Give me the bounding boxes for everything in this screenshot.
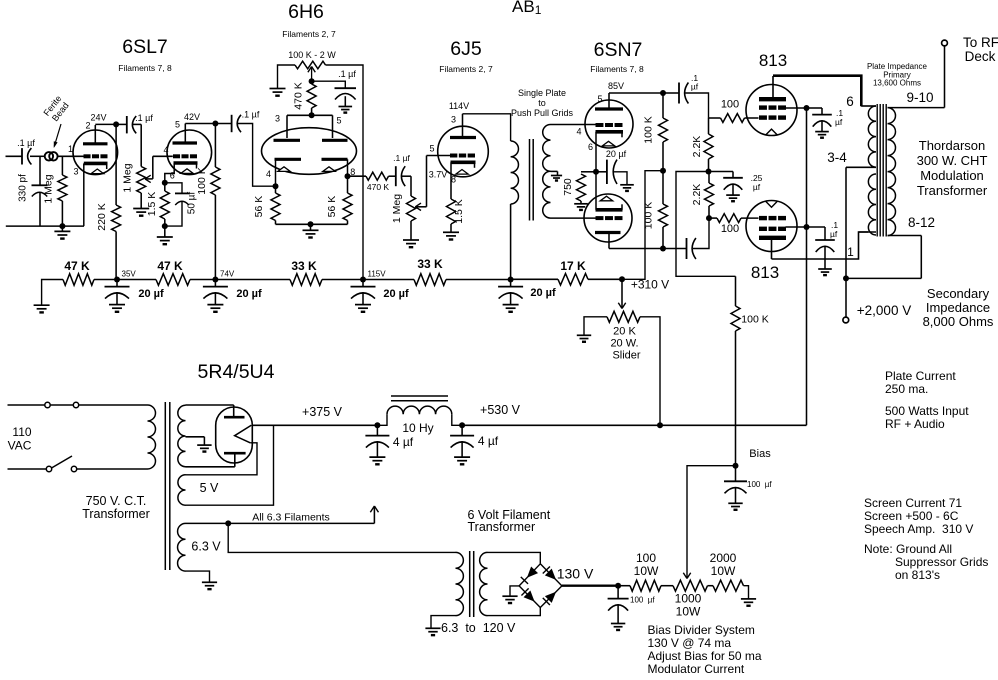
svg-text:47 K: 47 K <box>157 259 183 273</box>
wire upper 813 plate line <box>773 76 861 106</box>
wire screen rail vertical <box>806 108 808 425</box>
capacitor 100 uf bias filter <box>724 466 772 510</box>
svg-text:470 K: 470 K <box>293 82 305 109</box>
capacitor .1 uf coupling stage1-2 <box>127 113 154 133</box>
svg-text:10W: 10W <box>676 605 701 619</box>
transformer filament core <box>470 551 474 617</box>
capacitor .1 uf 6H6 bypass <box>312 69 357 113</box>
resistor 47 K second <box>117 259 215 285</box>
diode bridge bottom-right <box>543 592 556 605</box>
svg-text:220 K: 220 K <box>96 203 108 230</box>
wire plate to 24V node <box>90 113 116 125</box>
wire wiper to 6J5 grid <box>415 144 450 211</box>
diode 6H6 left cathode <box>266 159 301 186</box>
triode 6SN7b plate <box>595 233 621 249</box>
node label 6.3 V <box>191 540 221 554</box>
svg-text:5R4/5U4: 5R4/5U4 <box>198 361 275 383</box>
svg-text:4 µf: 4 µf <box>478 434 499 448</box>
resistor 2000 10W <box>708 551 749 599</box>
ground HV CT <box>197 445 211 451</box>
svg-text:470 K: 470 K <box>367 182 390 192</box>
capacitor 20 uf 74V <box>203 280 262 312</box>
wire AC bottom with switch <box>8 468 148 470</box>
svg-text:1000: 1000 <box>675 592 702 606</box>
svg-text:813: 813 <box>751 263 779 282</box>
triode V1b plate <box>173 120 198 144</box>
node AB1 operating-class label <box>512 0 542 17</box>
svg-text:Transformer: Transformer <box>917 183 988 198</box>
node ferrite bead label with arrow <box>41 94 71 148</box>
transformer interstage secondary <box>543 125 551 219</box>
svg-text:5: 5 <box>597 94 602 104</box>
wire cap to lower 813 grid node <box>693 218 709 248</box>
resistor 56 K left <box>253 186 280 224</box>
resistor 220 K <box>96 124 120 279</box>
svg-text:100 K: 100 K <box>196 167 208 194</box>
ground 20K slider <box>577 335 591 341</box>
wire audio input <box>6 155 23 157</box>
ground bus left <box>34 305 50 312</box>
svg-text:.1 µf: .1 µf <box>17 138 35 148</box>
wire 6.3 to filament transformer <box>228 523 455 552</box>
svg-text:1 Meg: 1 Meg <box>122 163 134 192</box>
wire secondary to bridge top <box>488 552 541 563</box>
triode 6SN7b cathode <box>596 172 623 210</box>
node plate 85V junction <box>660 90 666 96</box>
tetrode 813 upper screen <box>759 105 786 109</box>
tetrode 813 lower envelope <box>746 201 797 252</box>
svg-text:6H6: 6H6 <box>288 1 324 23</box>
node +310 V <box>619 276 669 291</box>
wire bead to grid pin 1 <box>58 144 84 156</box>
ground 1 Meg 6J5 <box>403 240 419 247</box>
node label 5 V <box>200 481 219 495</box>
resistor 17 K <box>511 259 622 285</box>
wire lower plate to 100K node <box>609 248 663 250</box>
node 100K bottom lower plate <box>660 246 666 252</box>
ground 750 <box>574 204 588 210</box>
svg-text:Modulation: Modulation <box>920 168 984 183</box>
diode 6H6 right cathode <box>322 159 356 177</box>
node 2.2K junction <box>706 169 712 175</box>
tetrode 813 upper grid <box>759 115 786 119</box>
triode V1b heater triangle <box>181 169 193 174</box>
svg-text:Adjust Bias for 50 ma: Adjust Bias for 50 ma <box>648 649 762 663</box>
svg-text:6SL7: 6SL7 <box>122 36 168 58</box>
svg-text:to: to <box>538 98 546 108</box>
svg-text:3.7V: 3.7V <box>429 170 448 180</box>
svg-text:6.3 V: 6.3 V <box>191 540 221 554</box>
wire filament bottom to 5V top <box>186 443 258 475</box>
node filter input <box>374 422 380 428</box>
node 100K junction B+ <box>660 168 666 174</box>
tetrode 813 lower grid <box>759 216 786 220</box>
wire cap to 1 Meg pot 6J5 <box>402 176 411 196</box>
svg-text:56 K: 56 K <box>253 196 265 218</box>
svg-text:µf: µf <box>830 229 838 239</box>
svg-text:115V: 115V <box>368 270 387 279</box>
svg-text:100 K - 2 W: 100 K - 2 W <box>288 50 336 60</box>
transformer interstage core <box>530 139 534 221</box>
tetrode 813 lower screen <box>759 227 786 231</box>
resistor 2.2K lower <box>691 172 714 219</box>
capacitor .1 uf coupling to 6H6 <box>215 110 259 133</box>
potentiometer 1 Meg 6J5 grid <box>391 194 416 240</box>
svg-text:1 Meg: 1 Meg <box>43 174 55 203</box>
capacitor .1 uf to lower 813 <box>663 238 696 259</box>
tube label 6H6 <box>282 1 336 39</box>
resistor 1.5 K 6J5 cathode <box>447 181 466 232</box>
terminal to RF deck <box>942 35 998 64</box>
svg-text:17 K: 17 K <box>560 259 586 273</box>
node 6SN7 cathode junction <box>593 169 599 175</box>
svg-text:VAC: VAC <box>8 439 32 453</box>
resistor 33 K second <box>363 257 511 285</box>
node 74V <box>212 270 234 283</box>
wire HV top to rectifier plate <box>186 404 234 406</box>
transformer modulation primary lower <box>847 174 876 259</box>
svg-text:100: 100 <box>721 99 739 111</box>
node Bias junction <box>733 448 772 469</box>
svg-text:20 W.: 20 W. <box>610 338 638 350</box>
node label thordarson transformer <box>917 138 988 198</box>
triode 6J5 envelope <box>438 126 489 177</box>
svg-text:RF + Audio: RF + Audio <box>885 417 945 431</box>
wire bias node to divider wiper <box>683 466 735 579</box>
diode 6H6 heater triangle right <box>323 167 335 172</box>
wire plate to 42V node <box>184 112 215 124</box>
svg-text:Impedance: Impedance <box>926 300 990 315</box>
svg-text:100 µf: 100 µf <box>630 596 655 605</box>
node cathode junction V1b <box>162 180 168 186</box>
capacitor 20 uf cathode bypass 6SN7 <box>596 149 634 191</box>
wire 470K to cap <box>389 175 396 177</box>
node lower screen rail <box>804 224 810 230</box>
node 6H6 cathode 8 <box>345 173 351 179</box>
tube label 813 upper <box>759 51 787 70</box>
capacitor .25 uf grid bypass <box>709 172 763 202</box>
node 35V <box>114 270 136 283</box>
capacitor 4 uf first <box>365 425 413 464</box>
svg-text:µf: µf <box>753 182 761 192</box>
svg-text:Note: Ground All: Note: Ground All <box>864 542 952 556</box>
svg-text:+310 V: +310 V <box>631 278 669 292</box>
svg-text:5: 5 <box>175 120 180 130</box>
svg-text:750 V. C.T.: 750 V. C.T. <box>86 494 147 508</box>
svg-text:130 V @ 74 ma: 130 V @ 74 ma <box>648 636 732 650</box>
node label plate current note <box>885 369 956 396</box>
svg-text:6.3 to 120 V: 6.3 to 120 V <box>441 621 516 635</box>
tetrode 813 upper plate <box>759 76 786 99</box>
ground 6.3 winding <box>202 582 217 589</box>
wire AC top with fuse <box>8 404 148 406</box>
wire ground return <box>6 225 84 227</box>
node label secondary impedance <box>923 286 994 329</box>
svg-text:+2,000 V: +2,000 V <box>857 303 911 318</box>
capacitor 50 uf cathode bypass <box>165 183 198 226</box>
resistor 100 K lower plate load <box>643 171 668 249</box>
resistor 750 cathode <box>562 172 596 204</box>
transformer filament primary <box>456 552 464 615</box>
tube label 813 lower <box>751 263 779 282</box>
svg-text:6: 6 <box>170 171 175 181</box>
wire 6.3 top filament run <box>186 506 379 524</box>
transformer power HV secondary <box>178 405 186 466</box>
node label 750 V CT transformer <box>82 494 150 521</box>
rectifier bridge diamond <box>519 564 562 608</box>
diode 6H6 right plate <box>322 139 348 142</box>
svg-text:250 ma.: 250 ma. <box>885 382 928 396</box>
svg-text:Plate Current: Plate Current <box>885 369 956 383</box>
wire 6.3 bottom to ground <box>186 571 210 582</box>
svg-text:Filaments 2, 7: Filaments 2, 7 <box>439 64 493 74</box>
node +2000 junction <box>843 275 849 281</box>
svg-text:Deck: Deck <box>965 49 996 64</box>
svg-text:6: 6 <box>846 94 854 109</box>
svg-text:1.5 K: 1.5 K <box>146 192 158 217</box>
svg-text:5: 5 <box>429 144 434 154</box>
svg-text:33 K: 33 K <box>291 259 317 273</box>
wire 100K-2W right to 115V drop <box>326 65 364 280</box>
rectifier 5R4 plate bottom <box>224 453 246 467</box>
triode V1a plate <box>83 121 108 144</box>
node label single plate to push pull grids <box>511 88 574 118</box>
triode 6J5 grid <box>450 154 475 158</box>
ground 1 Meg pot <box>133 209 149 216</box>
diode bridge top-right <box>543 566 556 579</box>
resistor 100 upper grid stopper <box>709 99 745 123</box>
svg-text:4: 4 <box>266 169 271 179</box>
svg-text:.1 µf: .1 µf <box>338 69 356 79</box>
triode 6SN7a heater triangle <box>602 141 614 146</box>
wire upper plate to node <box>609 92 663 94</box>
svg-text:20 µf: 20 µf <box>236 288 262 300</box>
capacitor .1 uf lower screen bypass <box>807 220 839 275</box>
triode 6SN7b envelope <box>584 194 632 242</box>
svg-text:Slider: Slider <box>612 350 640 362</box>
ground bridge <box>502 596 517 603</box>
triode V1a heater triangle <box>91 169 103 174</box>
transformer power 6.3V winding <box>178 523 186 571</box>
svg-text:130 V: 130 V <box>557 566 594 582</box>
svg-text:5: 5 <box>336 116 341 126</box>
wire grid to 100 ohm <box>745 117 759 119</box>
node input ground junction <box>59 223 65 229</box>
svg-text:2000: 2000 <box>710 551 737 565</box>
svg-text:100 µf: 100 µf <box>747 480 772 489</box>
svg-text:20 µf: 20 µf <box>383 288 409 300</box>
node label watts note <box>885 404 969 431</box>
transformer power primary <box>148 405 156 469</box>
node 20uf transformer return <box>508 277 514 283</box>
terminal fuse circles <box>45 402 79 407</box>
wire secondary bottom to lower grid <box>551 217 597 219</box>
svg-text:6J5: 6J5 <box>450 38 482 60</box>
svg-text:Single Plate: Single Plate <box>518 88 566 98</box>
svg-text:Bias Divider System: Bias Divider System <box>648 623 755 637</box>
wire wiper arrow 100K-2W <box>308 67 315 82</box>
wire 24V node to cap <box>116 123 126 125</box>
wire secondary top to RF deck <box>888 46 945 108</box>
triode V1b grid <box>173 154 197 158</box>
potentiometer 100 K - 2 W <box>278 50 337 88</box>
svg-text:Suppressor Grids: Suppressor Grids <box>895 555 988 569</box>
triode 6SN7a plate <box>595 81 624 109</box>
svg-text:4: 4 <box>576 127 581 137</box>
svg-text:Transformer: Transformer <box>468 520 536 534</box>
resistor 470 K coupling <box>366 172 389 192</box>
diode bridge top-left <box>521 566 538 583</box>
node label 6 volt filament transformer <box>468 508 551 534</box>
svg-text:Screen Current 71: Screen Current 71 <box>864 496 962 510</box>
node label bias divider note <box>648 623 762 676</box>
svg-text:500 Watts Input: 500 Watts Input <box>885 404 969 418</box>
svg-text:Secondary: Secondary <box>927 286 990 301</box>
svg-text:+530 V: +530 V <box>480 403 521 417</box>
triode 6J5 heater triangle <box>456 170 468 175</box>
svg-text:Filaments 7, 8: Filaments 7, 8 <box>118 63 172 73</box>
svg-text:µf: µf <box>835 117 843 127</box>
capacitor .1 uf to upper 813 <box>663 73 699 104</box>
svg-text:Speech Amp. 310 V: Speech Amp. 310 V <box>864 522 973 536</box>
svg-text:2.2K: 2.2K <box>691 184 703 206</box>
svg-text:750: 750 <box>562 178 574 196</box>
svg-text:Push Pull Grids: Push Pull Grids <box>511 108 574 118</box>
triode 6J5 cathode <box>429 162 476 184</box>
wire HV bottom to filament <box>186 466 235 468</box>
tube label 6SL7 <box>118 36 172 73</box>
svg-text:100: 100 <box>636 551 656 565</box>
svg-text:100 K: 100 K <box>741 314 768 326</box>
svg-text:20 µf: 20 µf <box>530 287 556 299</box>
wire cap to 6H6 cathode node <box>238 124 276 187</box>
node label suppressor note <box>864 542 988 582</box>
rectifier 5R4 plate top <box>224 405 245 417</box>
svg-text:6: 6 <box>588 142 593 152</box>
transformer filament secondary <box>480 552 488 615</box>
svg-text:+375 V: +375 V <box>302 405 343 419</box>
ground 100K-2W left <box>270 89 286 96</box>
svg-text:AB1: AB1 <box>512 0 542 17</box>
node upper screen rail <box>804 105 810 111</box>
potentiometer 20 K slider <box>584 311 641 361</box>
switch blade <box>46 456 76 472</box>
svg-text:13,600 Ohms: 13,600 Ohms <box>873 79 921 88</box>
svg-text:5 V: 5 V <box>200 481 219 495</box>
wire lower 813 plate line <box>772 232 869 259</box>
wire +530 rail <box>462 403 806 425</box>
node 100K-2W wiper junction <box>309 78 315 84</box>
triode 6SN7a grid <box>576 125 622 137</box>
ferrite bead <box>45 152 58 160</box>
resistor 33 K first <box>215 259 363 285</box>
transformer power 5V winding <box>178 475 186 505</box>
node lower 813 grid node <box>706 215 712 221</box>
svg-text:µf: µf <box>691 82 699 92</box>
node 24V <box>113 121 119 127</box>
wire 5V bottom to +375 rail <box>186 425 274 505</box>
svg-text:Bias: Bias <box>749 448 771 460</box>
ground bias divider <box>741 599 756 606</box>
wire secondary to bridge bottom <box>488 608 541 616</box>
svg-text:1: 1 <box>847 245 854 259</box>
svg-text:85V: 85V <box>608 81 624 91</box>
capacitor .1 uf input coupling <box>17 138 35 165</box>
wire primary tap to +2000 node <box>845 167 847 278</box>
triode V1a 6SL7 envelope <box>73 130 118 175</box>
wire pot wiper to grid pin 4 <box>145 145 173 183</box>
resistor 1 Meg grid <box>43 156 67 225</box>
tube label 6SN7 <box>590 39 644 74</box>
svg-text:1 Meg: 1 Meg <box>391 194 403 223</box>
wire 6J5 plate to transformer <box>463 114 511 141</box>
svg-text:3-4: 3-4 <box>827 150 847 165</box>
svg-text:20 K: 20 K <box>613 326 636 338</box>
svg-text:Filaments 7, 8: Filaments 7, 8 <box>590 64 644 74</box>
tetrode 813 upper envelope <box>746 85 797 136</box>
capacitor 100 uf bias supply <box>608 586 656 630</box>
svg-text:.1 µf: .1 µf <box>242 110 260 120</box>
diode bridge bottom-left <box>521 588 534 601</box>
svg-text:6SN7: 6SN7 <box>594 39 643 61</box>
ground interstage CT <box>551 176 562 181</box>
node 470K bottom plates junction <box>309 112 315 118</box>
triode 6SN7a envelope <box>585 100 633 148</box>
svg-text:3: 3 <box>451 115 456 125</box>
svg-text:330 pf: 330 pf <box>18 174 29 202</box>
tetrode 813 lower plate <box>759 238 786 259</box>
wire secondary center tap <box>551 171 558 175</box>
wire +310 feed to 100K junction <box>622 171 663 280</box>
wire slider right to +530 rail <box>640 317 660 426</box>
triode V1b 6SL7 envelope <box>167 130 212 175</box>
svg-text:All 6.3 Filaments: All 6.3 Filaments <box>252 512 330 524</box>
resistor 100 K upper plate load <box>643 93 668 171</box>
wire plates tie bar <box>275 114 342 139</box>
wire HV center tap <box>186 437 205 445</box>
ground filament primary <box>425 628 440 635</box>
triode 6SN7b heater triangle <box>600 196 612 201</box>
node 1.5K bottom <box>162 223 168 229</box>
svg-text:100: 100 <box>721 223 739 235</box>
node 6H6 cathode 4 <box>273 183 279 189</box>
resistor 470 K plate feed 6H6 <box>293 82 317 115</box>
potentiometer 1 Meg volume <box>122 163 146 208</box>
triode V1a grid <box>84 154 108 158</box>
capacitor 20 uf 115V <box>351 280 409 312</box>
svg-text:4 µf: 4 µf <box>393 435 414 449</box>
triode V1a cathode <box>73 163 107 226</box>
transformer modulation primary tap <box>827 150 876 167</box>
node label plate impedance <box>867 62 928 88</box>
wire 6H6 out to 470K <box>348 175 367 177</box>
wire +375 rail <box>252 405 377 425</box>
svg-text:Thordarson: Thordarson <box>919 138 985 153</box>
node +530 slider junction <box>657 422 663 428</box>
wire screen to rail <box>786 107 807 109</box>
rectifier 5R4 envelope <box>216 407 253 463</box>
svg-text:10 Hy: 10 Hy <box>402 421 433 435</box>
ground input <box>54 226 70 239</box>
svg-text:2.2K: 2.2K <box>691 136 703 158</box>
svg-text:3: 3 <box>275 114 280 124</box>
node 130V junction <box>615 583 621 589</box>
ground 1.5K <box>157 226 173 244</box>
resistor 100 K bias feed <box>731 276 769 465</box>
resistor 2.2K upper <box>691 118 713 172</box>
transformer power core <box>165 402 170 570</box>
svg-text:on 813's: on 813's <box>895 568 940 582</box>
